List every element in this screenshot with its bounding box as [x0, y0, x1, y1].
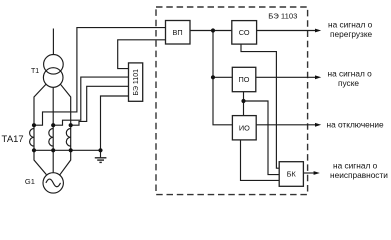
svg-text:ВП: ВП	[173, 28, 183, 37]
junction ground node	[98, 148, 102, 152]
block IO	[232, 116, 256, 140]
wire CT phase A secondary to block VP input	[34, 28, 165, 126]
svg-text:G1: G1	[25, 177, 35, 186]
block VP	[166, 21, 191, 45]
ground	[95, 158, 107, 163]
block BK	[279, 162, 303, 187]
svg-text:на сигнал о: на сигнал о	[328, 20, 373, 30]
wire phase C from T1 to G1	[60, 84, 71, 175]
wire ground lead	[100, 150, 102, 157]
arrowhead fault signal	[314, 171, 320, 175]
wire CT phase C secondary to BE1101 pin 2	[71, 86, 129, 125]
svg-text:на отключение: на отключение	[327, 120, 384, 130]
wires inside BE 1103	[190, 31, 318, 181]
arrowhead start signal	[315, 75, 321, 79]
svg-text:неисправности: неисправности	[330, 170, 388, 180]
svg-text:СО: СО	[239, 28, 250, 37]
junction PO output node above IO	[241, 99, 245, 103]
wire neutral to BE1101 pin 3	[101, 96, 129, 150]
junction VP output node	[211, 28, 215, 32]
generator G1	[43, 173, 63, 193]
dashed enclosure BE 1103	[156, 7, 308, 195]
wire PO bottom to junction above IO	[243, 92, 245, 116]
junction CT phase B bottom	[51, 148, 55, 152]
transformer T1 top lead	[52, 29, 54, 55]
wire phase A from T1 to G1	[34, 84, 46, 175]
junction PO input node	[211, 75, 215, 79]
wire BE1101 output to block VP input 2	[118, 40, 166, 69]
current transformer TA17 coil phase B	[49, 129, 53, 147]
svg-text:БЭ 1103: БЭ 1103	[268, 11, 297, 20]
svg-text:на сигнал о: на сигнал о	[328, 69, 373, 79]
svg-text:ТА17: ТА17	[2, 133, 24, 144]
wire SO to BK	[241, 44, 279, 168]
wire VP output to SO input	[190, 30, 232, 32]
junction CT phase A top	[32, 123, 36, 127]
wire CT phase B secondary to BE1101 pin 1	[53, 77, 128, 125]
wire bus from VP output junction down to IO input	[213, 31, 232, 125]
arrowhead overload signal	[315, 29, 321, 33]
wire IO output to trip signal	[256, 124, 317, 126]
current transformer TA17 coil phase A	[30, 129, 34, 147]
wire PO output to start signal	[256, 76, 318, 78]
wire junction to BK	[244, 101, 280, 175]
junction CT phase B top	[51, 123, 55, 127]
block SO	[232, 21, 257, 44]
svg-text:БК: БК	[287, 170, 297, 179]
svg-text:перегрузке: перегрузке	[330, 29, 373, 39]
wire bus tap to PO input	[213, 76, 232, 78]
current transformer TA17 coil phase C	[66, 129, 70, 147]
svg-text:ПО: ПО	[239, 75, 250, 84]
block PO	[232, 67, 256, 91]
wire SO output to overload signal	[257, 30, 318, 32]
svg-text:ИО: ИО	[239, 123, 250, 132]
wire CT common (bottom)	[34, 149, 101, 151]
transformer T1 primary winding	[44, 55, 64, 75]
wire phase B from T1 to G1	[52, 87, 54, 172]
junction CT phase A bottom	[32, 148, 36, 152]
svg-text:пуске: пуске	[338, 78, 359, 88]
block BE 1101	[129, 63, 143, 101]
arrowhead trip signal	[315, 123, 321, 127]
svg-text:БЭ 1101: БЭ 1101	[133, 69, 140, 96]
wire IO to BK	[241, 140, 280, 181]
junction CT phase C bottom	[69, 148, 73, 152]
svg-text:Т1: Т1	[31, 68, 39, 75]
junction CT phase C top	[69, 123, 73, 127]
wire BK output to fault signal	[303, 172, 316, 174]
transformer T1 secondary winding	[43, 68, 63, 88]
